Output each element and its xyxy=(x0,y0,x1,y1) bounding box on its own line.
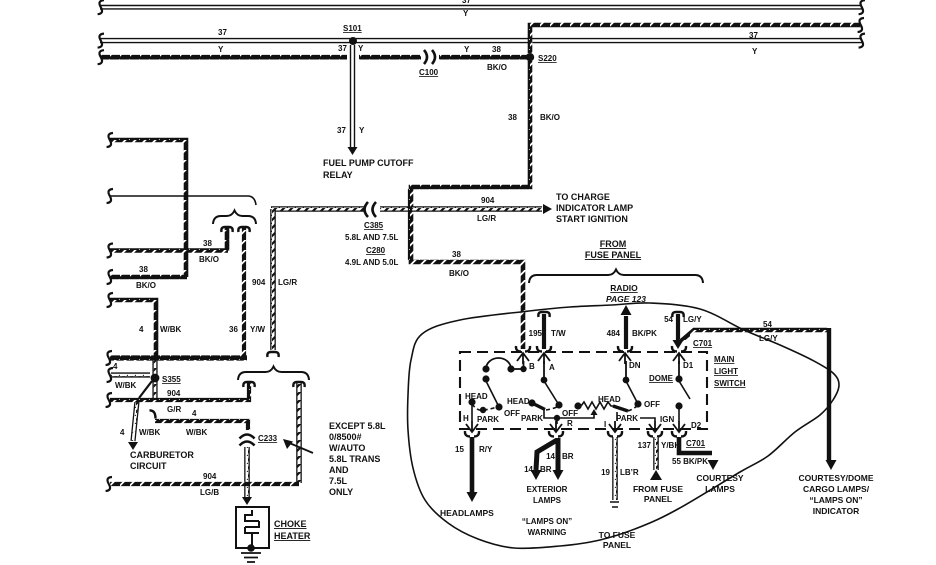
svg-text:HEATER: HEATER xyxy=(274,531,311,541)
svg-text:19: 19 xyxy=(601,468,610,477)
svg-text:OFF: OFF xyxy=(644,400,660,409)
svg-text:C701: C701 xyxy=(693,339,713,348)
svg-text:37: 37 xyxy=(218,28,227,37)
svg-text:C701: C701 xyxy=(686,439,706,448)
svg-text:TO CHARGE: TO CHARGE xyxy=(556,192,610,202)
svg-text:54: 54 xyxy=(763,320,772,329)
svg-text:BK/O: BK/O xyxy=(449,269,469,278)
svg-text:4: 4 xyxy=(192,409,197,418)
svg-text:A: A xyxy=(549,363,555,372)
svg-text:FUEL PUMP CUTOFF: FUEL PUMP CUTOFF xyxy=(323,158,414,168)
svg-text:HEAD: HEAD xyxy=(507,397,530,406)
svg-text:COURTESY/DOME: COURTESY/DOME xyxy=(798,473,873,483)
svg-text:C233: C233 xyxy=(258,434,278,443)
svg-text:WARNING: WARNING xyxy=(528,528,567,537)
svg-text:37: 37 xyxy=(337,126,346,135)
svg-text:LIGHT: LIGHT xyxy=(714,367,738,376)
svg-text:C280: C280 xyxy=(366,246,386,255)
svg-text:INDICATOR: INDICATOR xyxy=(813,506,859,516)
svg-text:AND: AND xyxy=(329,465,349,475)
svg-text:T/W: T/W xyxy=(551,329,566,338)
svg-text:D2: D2 xyxy=(691,421,702,430)
svg-text:W/AUTO: W/AUTO xyxy=(329,443,365,453)
svg-text:54: 54 xyxy=(664,315,673,324)
svg-text:BK/O: BK/O xyxy=(487,63,507,72)
svg-text:W/BK: W/BK xyxy=(115,381,137,390)
svg-text:4.9L AND 5.0L: 4.9L AND 5.0L xyxy=(345,258,398,267)
svg-text:H: H xyxy=(463,414,469,423)
svg-text:38: 38 xyxy=(452,250,461,259)
svg-text:Y: Y xyxy=(464,45,470,54)
svg-text:OFF: OFF xyxy=(562,409,578,418)
svg-text:COURTESY: COURTESY xyxy=(696,473,744,483)
svg-text:S355: S355 xyxy=(162,375,181,384)
svg-text:BR: BR xyxy=(540,465,552,474)
svg-text:904: 904 xyxy=(481,196,495,205)
svg-text:RADIO: RADIO xyxy=(610,283,638,293)
svg-text:Y: Y xyxy=(218,45,224,54)
svg-text:37: 37 xyxy=(338,44,347,53)
svg-text:14: 14 xyxy=(546,452,555,461)
svg-text:LAMPS: LAMPS xyxy=(705,484,735,494)
svg-text:LG/R: LG/R xyxy=(278,278,297,287)
svg-text:PARK: PARK xyxy=(616,414,638,423)
svg-text:LG/Y: LG/Y xyxy=(683,315,702,324)
svg-text:LG/Y: LG/Y xyxy=(759,334,778,343)
svg-text:“LAMPS ON”: “LAMPS ON” xyxy=(809,495,862,505)
svg-text:“LAMPS ON”: “LAMPS ON” xyxy=(522,517,572,526)
svg-text:LAMPS: LAMPS xyxy=(533,496,562,505)
svg-text:15: 15 xyxy=(455,445,464,454)
svg-text:D1: D1 xyxy=(683,361,694,370)
svg-text:C385: C385 xyxy=(364,221,384,230)
svg-text:G/R: G/R xyxy=(167,405,181,414)
svg-text:B: B xyxy=(529,362,535,371)
svg-text:PANEL: PANEL xyxy=(644,494,672,504)
svg-text:R: R xyxy=(567,419,573,428)
svg-text:LG/B: LG/B xyxy=(200,488,219,497)
svg-text:Y: Y xyxy=(359,126,365,135)
svg-text:0/8500#: 0/8500# xyxy=(329,432,362,442)
svg-text:W/BK: W/BK xyxy=(160,325,182,334)
svg-text:HEAD: HEAD xyxy=(465,392,488,401)
svg-text:BK/O: BK/O xyxy=(199,255,219,264)
svg-text:BR: BR xyxy=(562,452,574,461)
svg-text:PARK: PARK xyxy=(477,415,499,424)
svg-text:BK/PK: BK/PK xyxy=(632,329,657,338)
svg-text:BK/O: BK/O xyxy=(136,281,156,290)
svg-text:IGN: IGN xyxy=(660,415,674,424)
svg-text:Y/W: Y/W xyxy=(250,325,266,334)
svg-text:START IGNITION: START IGNITION xyxy=(556,214,628,224)
svg-text:36: 36 xyxy=(229,325,238,334)
svg-text:SWITCH: SWITCH xyxy=(714,379,746,388)
svg-text:HEADLAMPS: HEADLAMPS xyxy=(440,508,494,518)
svg-text:38: 38 xyxy=(492,45,501,54)
svg-text:137: 137 xyxy=(638,441,652,450)
svg-text:DOME: DOME xyxy=(649,374,674,383)
svg-text:37: 37 xyxy=(462,0,471,5)
svg-text:CHOKE: CHOKE xyxy=(274,519,307,529)
svg-text:Y: Y xyxy=(752,47,758,56)
svg-text:Y: Y xyxy=(463,9,469,18)
svg-text:DN: DN xyxy=(629,361,641,370)
svg-text:W/BK: W/BK xyxy=(186,428,208,437)
svg-text:CARGO LAMPS/: CARGO LAMPS/ xyxy=(803,484,870,494)
svg-text:38: 38 xyxy=(139,265,148,274)
svg-text:7.5L: 7.5L xyxy=(329,476,348,486)
svg-text:OFF: OFF xyxy=(504,409,520,418)
svg-text:904: 904 xyxy=(252,278,266,287)
svg-text:FUSE PANEL: FUSE PANEL xyxy=(585,250,642,260)
svg-text:MAIN: MAIN xyxy=(714,355,735,364)
svg-text:4: 4 xyxy=(139,325,144,334)
svg-text:38: 38 xyxy=(203,239,212,248)
svg-text:CIRCUIT: CIRCUIT xyxy=(130,461,167,471)
svg-text:HEAD: HEAD xyxy=(598,395,621,404)
svg-text:5.8L AND 7.5L: 5.8L AND 7.5L xyxy=(345,233,398,242)
svg-text:EXTERIOR: EXTERIOR xyxy=(527,485,568,494)
svg-text:Y: Y xyxy=(358,44,364,53)
svg-text:484: 484 xyxy=(607,329,621,338)
svg-text:EXCEPT 5.8L: EXCEPT 5.8L xyxy=(329,421,386,431)
svg-text:R/Y: R/Y xyxy=(479,445,493,454)
svg-text:4: 4 xyxy=(113,362,118,371)
svg-text:LG/R: LG/R xyxy=(477,214,496,223)
svg-text:BK/O: BK/O xyxy=(540,113,560,122)
svg-text:37: 37 xyxy=(749,31,758,40)
svg-text:TO FUSE: TO FUSE xyxy=(599,530,636,540)
svg-text:INDICATOR LAMP: INDICATOR LAMP xyxy=(556,203,633,213)
svg-text:FROM: FROM xyxy=(600,239,627,249)
svg-text:CARBURETOR: CARBURETOR xyxy=(130,450,194,460)
svg-text:S101: S101 xyxy=(343,24,362,33)
svg-text:S220: S220 xyxy=(538,54,557,63)
svg-text:38: 38 xyxy=(508,113,517,122)
svg-text:LB’R: LB’R xyxy=(620,468,639,477)
svg-text:14: 14 xyxy=(524,465,533,474)
svg-text:4: 4 xyxy=(120,428,125,437)
svg-text:904: 904 xyxy=(167,389,181,398)
svg-text:PANEL: PANEL xyxy=(603,540,631,550)
svg-text:ONLY: ONLY xyxy=(329,487,353,497)
svg-text:W/BK: W/BK xyxy=(139,428,161,437)
svg-text:RELAY: RELAY xyxy=(323,170,353,180)
svg-text:C100: C100 xyxy=(419,68,439,77)
svg-text:195: 195 xyxy=(529,329,543,338)
svg-text:PARK: PARK xyxy=(521,414,543,423)
svg-text:904: 904 xyxy=(203,472,217,481)
svg-text:55 BK/PK: 55 BK/PK xyxy=(672,457,708,466)
svg-text:5.8L TRANS: 5.8L TRANS xyxy=(329,454,380,464)
svg-text:FROM FUSE: FROM FUSE xyxy=(633,484,683,494)
svg-text:I: I xyxy=(604,420,606,429)
